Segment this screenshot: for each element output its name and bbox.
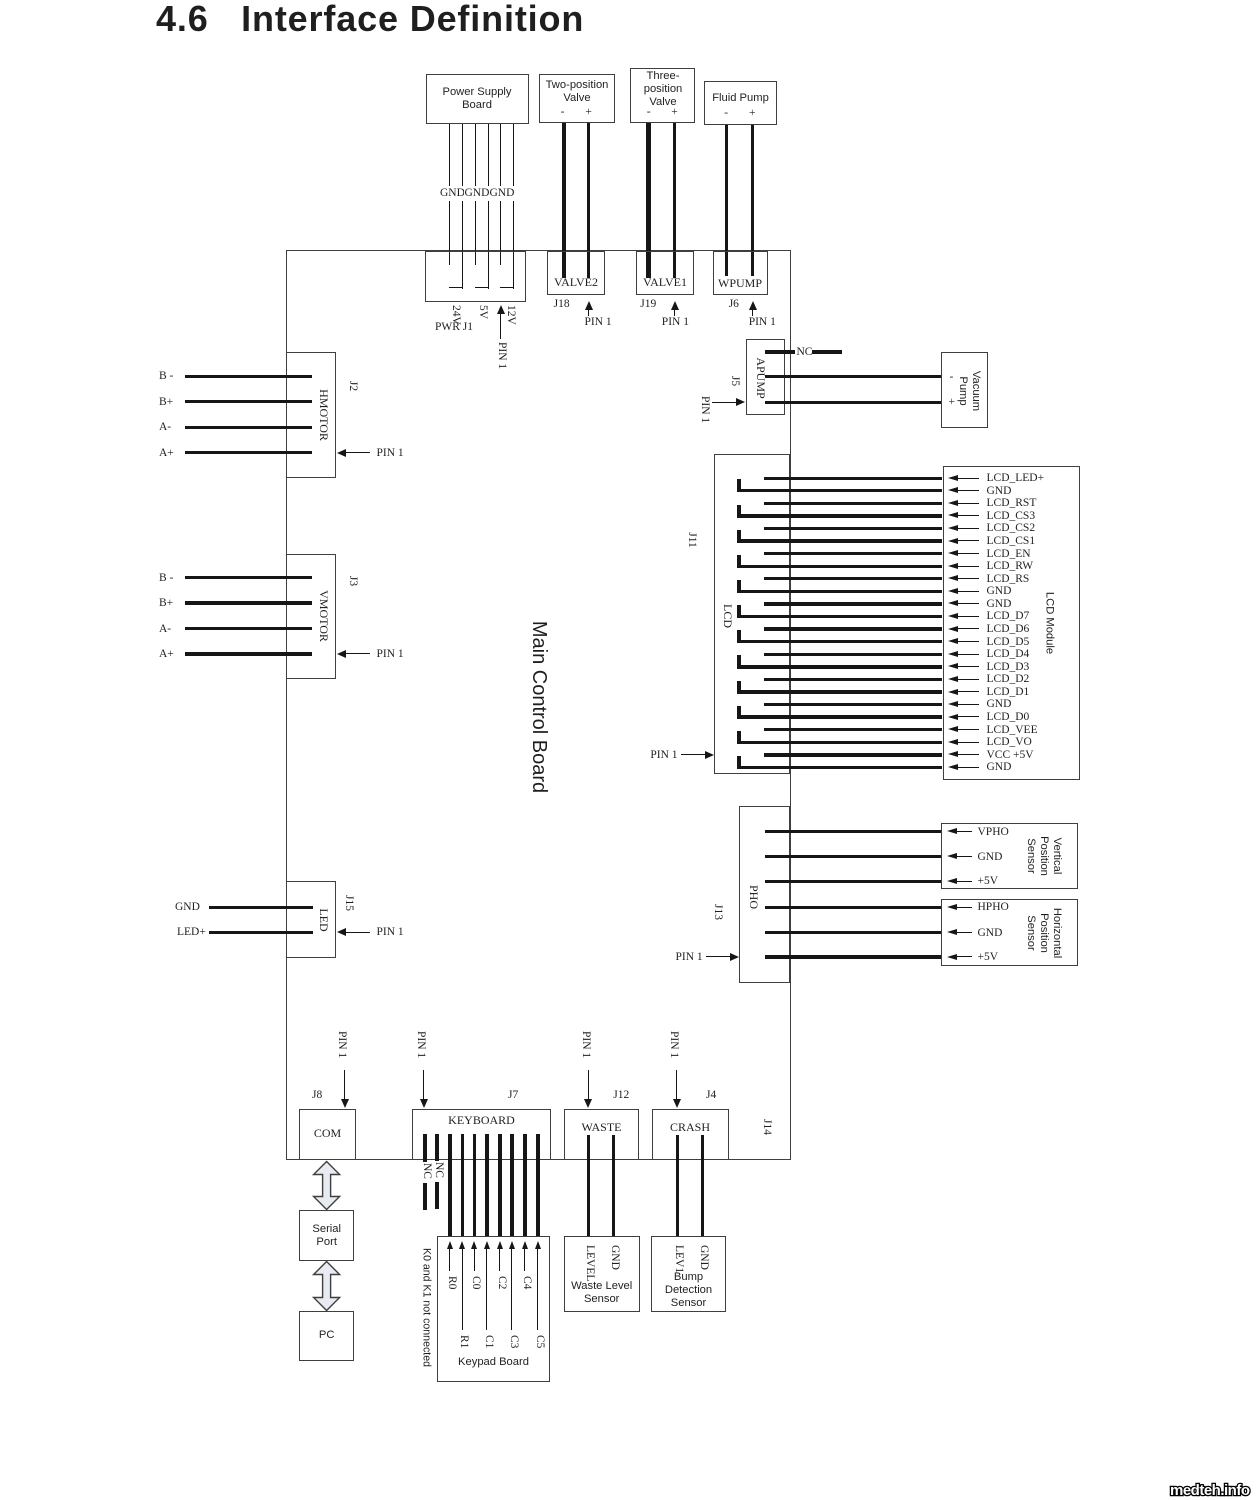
wire LCD pin20 LCD_D0 <box>737 706 740 717</box>
label LCD LCD_RW pin8 <box>987 559 1034 573</box>
power supply board box <box>426 74 529 124</box>
arrow keypad C4 <box>522 1241 528 1249</box>
wire wpump minus <box>725 125 728 276</box>
pin1 arrow J1 <box>497 305 505 314</box>
wire power pin 6 <box>513 124 514 289</box>
wire power pin 2 <box>462 124 463 289</box>
label LCD LCD_D2 pin17 <box>987 672 1030 686</box>
wire keyboard NC1 a <box>423 1134 426 1162</box>
wire VMOTOR A- <box>185 627 312 630</box>
pin1 label J5 <box>698 396 710 423</box>
wire LCD pin6 LCD_CS1 <box>737 530 740 541</box>
wire HMOTOR A- <box>185 426 312 429</box>
arrow LCD GND pin11 <box>948 600 958 606</box>
label LCD LCD_RS pin9 <box>987 572 1030 586</box>
wire power pin 4 foot <box>475 287 489 288</box>
arrow PHO VPHO pin1 <box>947 828 957 834</box>
three-position valve box <box>630 68 695 123</box>
wire keyboard C5 <box>536 1134 539 1236</box>
label J19 <box>640 297 656 311</box>
wire HMOTOR A+ <box>185 451 312 454</box>
connector J19 label <box>643 275 687 290</box>
label GND pin4 <box>464 186 490 200</box>
pin1 arrow J8 <box>344 1070 345 1100</box>
wire LCD pin4 LCD_CS3 <box>737 505 740 516</box>
label keypad C4 <box>520 1276 532 1289</box>
pin1 label J11 <box>650 748 677 762</box>
wire keyboard C4 <box>523 1134 526 1236</box>
label PWR J1 <box>435 320 473 334</box>
label keypad R0 <box>445 1276 457 1289</box>
label LCD GND pin2 <box>987 484 1012 498</box>
wire HMOTOR B - <box>185 375 312 378</box>
label crash LEV1 <box>672 1245 684 1273</box>
wire keyboard C0 <box>473 1134 476 1236</box>
arrow LCD LCD_D2 pin17 <box>948 676 958 682</box>
wire keyboard NC1 b <box>423 1183 426 1210</box>
label PHO HPHO pin4 <box>978 900 1009 914</box>
arrow LCD GND pin2 <box>948 487 958 493</box>
connector J6 WPUMP box <box>713 251 768 296</box>
arrow PHO +5V pin3 <box>947 878 957 884</box>
label LCD LCD_VEE pin21 <box>987 723 1038 737</box>
vertical position sensor box <box>941 823 1078 889</box>
arrow LCD LCD_LED+ pin1 <box>948 475 958 481</box>
label NC2 <box>432 1162 444 1178</box>
label 24V <box>449 305 461 325</box>
wire LCD pin22 LCD_VO <box>737 731 740 742</box>
LCD module label <box>1042 592 1055 654</box>
connector J8 COM label <box>314 1126 341 1141</box>
fluid pump box <box>704 81 778 125</box>
arrow LCD LCD_RW pin8 <box>948 563 958 569</box>
label J2 <box>345 381 359 391</box>
wire LCD pin12 LCD_D7 <box>737 605 740 616</box>
arrow PHO GND pin5 <box>947 929 957 935</box>
wire keyboard NC2 a <box>435 1134 438 1161</box>
label keypad C1 <box>482 1335 494 1348</box>
wire LCD pin8 LCD_RW <box>737 555 740 566</box>
label LCD LCD_D0 pin20 <box>987 710 1030 724</box>
wire LED GND <box>209 906 313 909</box>
pin1 label J2 <box>377 446 404 460</box>
connector J4 CRASH label <box>670 1120 710 1135</box>
wire valve2 plus <box>587 123 590 278</box>
wire LCD pin24 GND <box>737 756 740 767</box>
arrow keypad C5 <box>535 1241 541 1249</box>
connector J18 label <box>554 275 598 290</box>
arrow PHO HPHO pin4 <box>947 904 957 910</box>
connector J3 VMOTOR box <box>286 554 336 680</box>
pin1 arrow J5 <box>712 402 738 403</box>
arrow LCD VCC +5V pin23 <box>948 751 958 757</box>
label VMOTOR B+ <box>159 596 173 610</box>
label LCD LCD_EN pin7 <box>987 547 1031 561</box>
pin1 arrow J2 <box>343 452 370 453</box>
wire waste GND <box>612 1135 615 1237</box>
vacuum pump box <box>941 352 988 428</box>
arrow LCD LCD_D6 pin13 <box>948 626 958 632</box>
arrow LCD LCD_CS1 pin6 <box>948 538 958 544</box>
label keypad C0 <box>469 1276 481 1289</box>
arrow keypad C3 <box>509 1241 515 1249</box>
label keypad C3 <box>507 1335 519 1348</box>
label VMOTOR A- <box>159 622 171 636</box>
wire LCD pin13 LCD_D6 <box>764 627 942 630</box>
wire LCD pin1 LCD_LED+ <box>764 477 942 480</box>
arrow keypad C0 <box>471 1241 477 1249</box>
wire valve1 minus <box>646 123 652 278</box>
wire VMOTOR B+ <box>185 601 312 604</box>
arrow LCD LCD_RS pin9 <box>948 575 958 581</box>
wire LED LED+ <box>209 931 313 934</box>
pin1 label J7 <box>414 1031 426 1058</box>
connector J13 PHO label <box>747 885 761 909</box>
wire LCD pin15 LCD_D4 <box>764 653 942 656</box>
fluid pump label <box>712 92 769 106</box>
wire keyboard NC2 b <box>435 1182 438 1209</box>
label J4 <box>706 1088 716 1102</box>
label waste GND <box>608 1245 620 1270</box>
wire HMOTOR B+ <box>185 400 312 403</box>
wire LCD pin10 GND <box>737 580 740 591</box>
wire apump minus <box>765 375 942 378</box>
wire crash GND <box>701 1135 704 1237</box>
connector J18 VALVE2 box <box>547 251 605 296</box>
wire power pin 3 <box>475 124 476 265</box>
arrow LCD LCD_VEE pin21 <box>948 726 958 732</box>
connector J5 APUMP box <box>746 339 785 414</box>
connector J1 PWR box <box>425 251 526 302</box>
wire apump plus <box>765 401 942 404</box>
label minus valve1 <box>647 105 651 119</box>
wire power pin 2 foot <box>449 287 463 288</box>
wire PHO pin5 GND <box>765 931 941 934</box>
label LCD LCD_CS2 pin5 <box>987 521 1036 535</box>
pin1 label J15 <box>377 925 404 939</box>
connector J19 VALVE1 box <box>636 251 694 296</box>
wire power pin 4 <box>488 124 489 289</box>
title heading <box>156 0 584 41</box>
label LCD LCD_D4 pin15 <box>987 647 1030 661</box>
pin1 label J12 <box>579 1031 591 1058</box>
wire LCD pin14 LCD_D5 <box>737 630 740 641</box>
vertical position sensor label <box>1023 836 1063 876</box>
pin1 label J8 <box>335 1031 347 1058</box>
label GND pin2 <box>440 186 466 200</box>
label keypad C5 <box>533 1335 545 1348</box>
label LCD GND pin11 <box>987 597 1012 611</box>
wire keyboard R0 <box>448 1134 451 1236</box>
pin1 arrow J13 <box>706 956 732 957</box>
connector J11 LCD box <box>714 454 790 774</box>
pin1 label J1 <box>495 342 507 369</box>
label minus vacuum <box>950 370 954 384</box>
label J18 <box>554 297 570 311</box>
connector J8 COM box <box>299 1109 356 1160</box>
connector J2 HMOTOR box <box>286 352 336 479</box>
wire valve1 plus <box>673 123 676 278</box>
main control board outline <box>286 250 791 1160</box>
connector J15 LED box <box>286 881 336 958</box>
label 5V <box>476 305 488 319</box>
label LCD LCD_D7 pin12 <box>987 609 1030 623</box>
label VMOTOR A+ <box>159 647 174 661</box>
connector J4 CRASH box <box>652 1109 729 1160</box>
label LED GND <box>175 900 200 914</box>
arrow LCD LCD_RST pin3 <box>948 500 958 506</box>
pc label <box>319 1329 335 1343</box>
label LED LED+ <box>177 925 206 939</box>
label 12V <box>504 305 516 325</box>
connector J15 LED label <box>317 908 331 931</box>
label PHO +5V pin6 <box>978 950 999 964</box>
wire PHO pin1 VPHO <box>765 830 941 833</box>
pin1 arrow J11 <box>681 754 707 755</box>
wire LCD pin21 LCD_VEE <box>764 728 942 731</box>
pc box <box>299 1311 354 1361</box>
three-position valve label <box>644 70 683 110</box>
bump detection sensor label <box>665 1271 712 1311</box>
connector J12 WASTE box <box>564 1109 639 1160</box>
wire PHO pin4 HPHO <box>765 906 941 909</box>
svg-text:medteh.info: medteh.info <box>1170 1482 1250 1499</box>
label J7 <box>508 1088 518 1102</box>
arrow LCD LCD_VO pin22 <box>948 739 958 745</box>
arrow PHO GND pin2 <box>947 853 957 859</box>
arrow keypad C2 <box>497 1241 503 1249</box>
label LCD LCD_RST pin3 <box>987 496 1037 510</box>
arrow LCD LCD_EN pin7 <box>948 550 958 556</box>
label LCD LCD_VO pin22 <box>987 735 1032 749</box>
wire wpump plus <box>751 125 754 276</box>
connector J6 label <box>718 276 762 291</box>
pin1 arrow J6 <box>749 301 757 310</box>
pin1 label J6 <box>749 315 776 329</box>
waste level sensor box <box>564 1236 640 1312</box>
arrow keypad C1 <box>484 1241 490 1249</box>
note K0 K1 <box>421 1248 432 1367</box>
horizontal position sensor box <box>941 899 1078 966</box>
label HMOTOR A+ <box>159 446 174 460</box>
arrow LCD LCD_D1 pin18 <box>948 689 958 695</box>
label waste LEVEL <box>584 1245 596 1281</box>
bump detection sensor box <box>651 1236 727 1312</box>
label keypad R1 <box>457 1335 469 1348</box>
pin1 arrow J18 <box>585 301 593 310</box>
wire LCD pin16 LCD_D3 <box>737 655 740 666</box>
wire LCD pin5 LCD_CS2 <box>764 527 942 530</box>
pin1 arrow J15 <box>343 932 370 933</box>
label plus wpump <box>749 106 756 120</box>
pin1 label J4 <box>667 1031 679 1058</box>
two-position valve label <box>546 79 609 105</box>
label HMOTOR B - <box>159 369 173 383</box>
label LCD LCD_D1 pin18 <box>987 685 1030 699</box>
arrow LCD LCD_D3 pin16 <box>948 663 958 669</box>
pin1 arrow J3 <box>343 653 370 654</box>
arrow LCD LCD_CS3 pin4 <box>948 512 958 518</box>
wire power pin 6 foot <box>500 287 513 288</box>
serial port label <box>312 1223 341 1249</box>
label J14 <box>759 1119 773 1135</box>
wire LCD pin11 GND <box>764 602 942 605</box>
wire VMOTOR B - <box>185 576 312 579</box>
wire PHO pin2 GND <box>765 855 941 858</box>
connector J11 LCD label <box>720 604 734 628</box>
wire LCD pin7 LCD_EN <box>764 552 942 555</box>
wire LCD pin9 LCD_RS <box>764 577 942 580</box>
label HMOTOR A- <box>159 420 171 434</box>
label J5 <box>727 376 741 386</box>
keypad board box <box>437 1236 550 1382</box>
label J8 <box>312 1088 322 1102</box>
wire power pin 1 <box>449 124 450 265</box>
arrow LCD LCD_D0 pin20 <box>948 714 958 720</box>
label LCD LCD_LED+ pin1 <box>987 471 1045 485</box>
label J12 <box>613 1088 629 1102</box>
connector J7 KEYBOARD box <box>412 1109 551 1160</box>
connector J2 HMOTOR label <box>317 389 331 441</box>
wire apump NC a <box>765 350 795 353</box>
wire apump NC b <box>812 350 842 353</box>
arrow keypad R1 <box>459 1241 465 1249</box>
wire keyboard C1 <box>485 1134 488 1236</box>
label LCD VCC +5V pin23 <box>987 748 1034 762</box>
label LCD GND pin10 <box>987 584 1012 598</box>
connector J3 VMOTOR label <box>317 590 331 642</box>
label PHO VPHO pin1 <box>978 825 1009 839</box>
wire LCD pin23 VCC +5V <box>764 753 942 756</box>
wire LCD pin17 LCD_D2 <box>764 678 942 681</box>
label PHO +5V pin3 <box>978 874 999 888</box>
pin1 arrow J12 <box>588 1070 589 1100</box>
pin1 arrow J7 <box>423 1070 424 1100</box>
label LCD LCD_CS3 pin4 <box>987 509 1036 523</box>
label LCD GND pin24 <box>987 760 1012 774</box>
wire valve2 minus <box>562 123 565 278</box>
arrow LCD GND pin19 <box>948 701 958 707</box>
pin1 label J3 <box>377 647 404 661</box>
arrow LCD LCD_D4 pin15 <box>948 651 958 657</box>
two-position valve box <box>539 74 616 123</box>
connector J5 label <box>754 357 768 398</box>
label plus vacuum <box>949 395 956 409</box>
label J11 <box>684 532 698 548</box>
label NC <box>797 345 813 359</box>
wire power pin 5 <box>500 124 501 265</box>
wire LCD pin3 LCD_RST <box>764 502 942 505</box>
label J13 <box>710 904 724 920</box>
arrow LCD GND pin24 <box>948 764 958 770</box>
pin1 label J13 <box>676 950 703 964</box>
label LCD GND pin19 <box>987 697 1012 711</box>
label plus valve2 <box>585 105 592 119</box>
pin1 label J18 <box>585 315 612 329</box>
label crash GND <box>697 1245 709 1270</box>
label HMOTOR B+ <box>159 395 173 409</box>
arrow keypad R0 <box>447 1241 453 1249</box>
wire LCD pin19 GND <box>764 703 942 706</box>
label J6 <box>729 297 739 311</box>
label GND pin6 <box>489 186 515 200</box>
label LCD LCD_D5 pin14 <box>987 635 1030 649</box>
label plus valve1 <box>671 105 678 119</box>
vacuum pump label <box>956 371 982 411</box>
label PHO GND pin2 <box>978 850 1003 864</box>
pin1 label J19 <box>662 315 689 329</box>
arrow LCD LCD_D5 pin14 <box>948 638 958 644</box>
arrow LCD GND pin10 <box>948 588 958 594</box>
label minus valve2 <box>561 105 565 119</box>
arrow PHO +5V pin6 <box>947 954 957 960</box>
label LCD LCD_CS1 pin6 <box>987 534 1036 548</box>
main control board label <box>526 621 550 793</box>
label J15 <box>341 895 355 911</box>
waste level sensor label <box>571 1279 632 1305</box>
label LCD LCD_D3 pin16 <box>987 660 1030 674</box>
power supply board label <box>442 86 511 112</box>
wire keyboard R1 <box>461 1134 464 1236</box>
keypad board label <box>458 1356 529 1370</box>
connector J12 WASTE label <box>582 1120 622 1135</box>
arrow LCD LCD_CS2 pin5 <box>948 525 958 531</box>
label J3 <box>345 576 359 586</box>
wire keyboard C2 <box>498 1134 501 1236</box>
wire waste LEVEL <box>587 1135 590 1237</box>
wire PHO pin6 +5V <box>765 955 941 958</box>
label minus wpump <box>724 106 728 120</box>
serial port box <box>299 1210 354 1261</box>
horizontal position sensor label <box>1023 907 1063 957</box>
LCD module box <box>943 466 1080 780</box>
label keypad C2 <box>495 1276 507 1289</box>
wire keyboard C3 <box>510 1134 513 1236</box>
arrow LCD LCD_D7 pin12 <box>948 613 958 619</box>
pin1 arrow J19 <box>671 301 679 310</box>
wire VMOTOR A+ <box>185 652 312 655</box>
label VMOTOR B - <box>159 571 173 585</box>
pin1 arrow J4 <box>676 1070 677 1100</box>
label LCD LCD_D6 pin13 <box>987 622 1030 636</box>
connector J7 KEYBOARD label <box>448 1113 515 1128</box>
label PHO GND pin5 <box>978 926 1003 940</box>
wire LCD pin18 LCD_D1 <box>737 681 740 692</box>
connector J13 PHO box <box>739 806 790 983</box>
label NC1 <box>420 1163 432 1179</box>
wire crash LEV1 <box>676 1135 679 1237</box>
wire LCD pin2 GND <box>737 479 740 490</box>
watermark <box>1169 1480 1258 1500</box>
wire PHO pin3 +5V <box>765 880 941 883</box>
